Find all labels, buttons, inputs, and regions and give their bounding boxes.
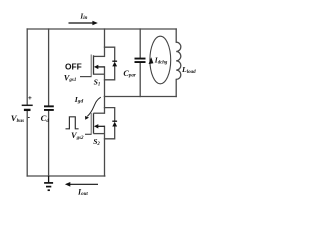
transistor S2: [85, 113, 105, 135]
wire left vertical upper: [26, 29, 28, 105]
gate pulse waveform Vgs2: [66, 117, 79, 129]
arrow Iout: [65, 182, 98, 187]
wire S1 source vertical to switch node: [104, 67, 106, 97]
transistor S1: [80, 55, 105, 77]
wire Cpar branch lower: [139, 63, 141, 97]
ground: [44, 176, 53, 190]
wire Cd branch lower: [48, 111, 50, 176]
svg-text:Vgs1: Vgs1: [64, 73, 77, 83]
svg-text:Lload: Lload: [181, 65, 196, 75]
diode D1 (S1 body diode): [112, 61, 117, 66]
svg-text:Cpar: Cpar: [123, 69, 135, 79]
arrow Igd curve: [85, 97, 101, 120]
svg-text:+: +: [28, 95, 32, 102]
wire Lload branch lower: [175, 79, 177, 96]
svg-text:Vbus: Vbus: [11, 113, 24, 124]
svg-text:Iout: Iout: [77, 187, 88, 197]
wire Cpar branch upper: [139, 29, 141, 58]
svg-text:Vgs2: Vgs2: [71, 131, 84, 141]
wire top rail: [27, 28, 176, 30]
wire S2 diode branch: [105, 108, 115, 139]
wire S1 drain to top rail: [104, 29, 106, 56]
svg-text:S1: S1: [94, 78, 101, 88]
wire left vertical lower: [26, 111, 28, 176]
svg-text:Idchg: Idchg: [154, 56, 168, 66]
wire Lload branch upper: [175, 29, 177, 42]
diode D2 (S2 body diode): [112, 121, 117, 126]
circulating current loop Idchg: [149, 36, 171, 84]
svg-text:OFF: OFF: [65, 61, 82, 71]
inductor Lload: [176, 42, 181, 79]
wire Cd branch upper: [48, 29, 50, 105]
svg-text:Igd: Igd: [74, 95, 84, 105]
wire bottom rail: [27, 175, 105, 177]
svg-text:Iin: Iin: [79, 12, 87, 21]
svg-text:-: -: [28, 115, 31, 122]
wire switch node rail: [105, 96, 177, 98]
capacitor Cd: [44, 105, 54, 111]
capacitor Cpar: [135, 58, 146, 63]
wire S2 source vertical to bottom rail: [104, 126, 106, 176]
svg-text:S2: S2: [93, 137, 100, 147]
battery Vbus: [22, 95, 33, 121]
wire S1 diode branch: [105, 47, 115, 80]
wire S2 drain vertical: [104, 97, 106, 114]
arrow Iin: [69, 21, 98, 26]
